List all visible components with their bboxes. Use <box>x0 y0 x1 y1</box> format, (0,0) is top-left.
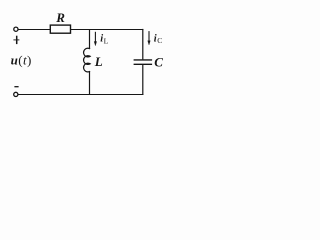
wire bottom <box>18 94 143 96</box>
node junction at inductor branch <box>89 30 91 49</box>
resistor R <box>50 25 70 33</box>
svg-text:R: R <box>55 10 65 25</box>
inductor L coil <box>84 48 91 72</box>
svg-text:C: C <box>157 36 162 45</box>
wire top from terminal to resistor <box>18 29 50 31</box>
current arrow iC <box>148 31 151 45</box>
wire capacitor top lead <box>142 29 144 60</box>
label iC <box>154 34 163 46</box>
terminal bottom-left <box>14 92 18 96</box>
minus sign <box>14 86 18 88</box>
capacitor C plates <box>134 60 153 64</box>
wire top from resistor to capacitor corner <box>71 29 144 31</box>
svg-text:L: L <box>104 36 109 45</box>
label iL <box>100 34 108 46</box>
svg-text:i: i <box>154 34 157 45</box>
wire capacitor bottom lead <box>142 65 144 95</box>
plus sign <box>13 36 19 44</box>
current arrow iL <box>94 32 97 46</box>
wire inductor bottom lead <box>89 72 91 96</box>
svg-text:L: L <box>94 54 103 69</box>
terminal top-left <box>14 27 18 31</box>
svg-text:C: C <box>154 55 163 70</box>
svg-text:u(t): u(t) <box>11 53 32 68</box>
